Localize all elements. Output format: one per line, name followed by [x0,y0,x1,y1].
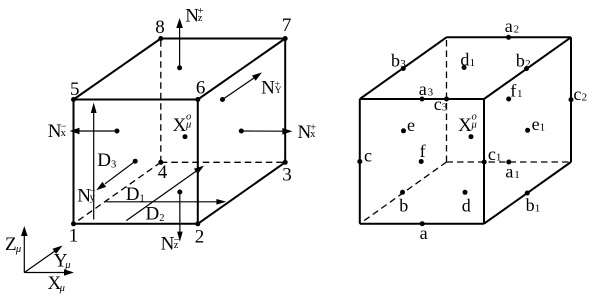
svg-text:7: 7 [282,15,292,36]
svg-text:μ: μ [15,244,21,255]
wire hidden edge 4'-3' [447,161,572,163]
wire hidden edge 4'-1' [360,162,447,224]
svg-text:x: x [310,129,316,140]
svg-text:μ: μ [64,260,70,271]
node c1 [482,144,502,164]
node X_mu^o center of right cube [458,111,477,139]
arrow N_Z plus (top face normal) [176,6,204,71]
arrow N_Y minus (front face normal) [77,159,138,207]
svg-text:b: b [516,51,525,71]
node b1 [525,191,541,216]
node c3 [434,94,449,114]
wire hidden edge 4-8 [160,39,162,163]
node 5 [70,79,80,102]
node b3 [391,51,406,72]
svg-text:b: b [399,196,408,216]
svg-text:D: D [146,204,160,225]
wire edge 1-5 [73,100,75,224]
node d [462,190,471,216]
svg-text:b: b [391,51,400,71]
wire edge 6'-7' [484,37,571,99]
wire edge 1-2 [74,223,198,225]
wire edge 5-8 [74,39,161,100]
svg-text:Y: Y [275,86,282,96]
node c2 [569,84,588,104]
node f1 [506,81,522,102]
wire edge 2'-3' [484,162,571,224]
svg-text:1: 1 [517,88,523,100]
svg-text:f: f [510,81,516,101]
node a2 [505,16,519,40]
arrow N_X plus (right face normal) [239,122,316,143]
wire edge 8'-7' [447,36,572,38]
svg-text:3: 3 [111,159,116,170]
svg-text:c: c [434,94,442,114]
wire edge 2-3 [198,162,285,224]
arrow N_Z minus (bottom face normal) [161,190,183,255]
svg-text:1: 1 [540,122,546,134]
node e [401,115,415,135]
svg-text:2: 2 [582,91,588,103]
node d1 [460,50,475,70]
svg-text:1: 1 [535,203,541,215]
svg-text:6: 6 [196,78,206,99]
svg-text:D: D [126,184,140,205]
svg-text:5: 5 [70,79,80,100]
svg-text:d: d [462,196,471,216]
node 2 [195,221,205,247]
wire hidden edge 4-1 [74,162,161,224]
svg-text:μ: μ [471,120,477,131]
axis Y [24,251,55,273]
svg-text:μ: μ [59,283,65,294]
svg-text:f: f [420,141,426,161]
node a1 [505,160,519,182]
svg-text:a: a [505,162,513,182]
svg-text:b: b [526,195,535,215]
svg-text:X: X [458,115,472,136]
node b2 [516,51,531,71]
svg-text:1: 1 [496,152,502,164]
wire edge 3-7 [284,39,286,163]
node 3 [282,160,292,186]
svg-text:z: z [174,240,179,251]
wire edge 8-7 [161,38,285,40]
node 7 [282,15,292,41]
wire edge 2'-6' [483,99,485,224]
node 6 [195,78,205,102]
wire edge 1'-5' [359,99,361,224]
svg-text:3: 3 [442,102,448,114]
arrow D3 (z direction) [91,103,116,220]
svg-text:d: d [460,50,469,70]
svg-text:3: 3 [428,87,434,99]
node c [357,146,372,166]
svg-text:2: 2 [159,213,164,224]
wire edge 1'-2' [360,223,484,225]
node 1 [69,221,79,246]
svg-text:N: N [161,233,175,254]
svg-text:1: 1 [69,226,79,247]
svg-text:4: 4 [158,162,168,183]
node a [420,221,428,243]
svg-text:D: D [97,150,111,171]
svg-text:e: e [532,114,540,134]
coordinate axes [5,226,74,294]
arrow N_Y plus (back face normal) [220,72,282,102]
arrow D2 (y direction) [126,166,204,225]
svg-text:3: 3 [400,58,406,70]
svg-text:2: 2 [195,227,205,248]
wire edge 2-6 [197,100,199,224]
svg-text:y: y [90,193,96,204]
node a3 [419,79,434,102]
node 4 [158,160,168,183]
svg-text:c: c [364,146,372,166]
axis X [24,272,65,274]
wire edge 3'-7' [570,37,572,162]
wire hidden edge 4-3 [161,161,285,163]
svg-text:N: N [261,78,275,99]
wire edge 6-7 [198,39,285,100]
node f [419,141,426,164]
arrow D1 (x direction) [106,184,226,205]
axis Z [23,235,25,273]
svg-text:x: x [61,128,67,139]
svg-text:a: a [505,16,513,36]
svg-text:2: 2 [514,24,520,36]
svg-text:3: 3 [282,165,292,186]
svg-text:a: a [420,223,428,243]
arrow N_X minus (left face normal) [48,121,120,142]
svg-text:1: 1 [470,57,476,69]
svg-text:1: 1 [140,194,145,205]
node e1 [525,114,545,134]
svg-text:c: c [573,84,581,104]
svg-text:2: 2 [525,58,531,70]
svg-text:8: 8 [155,17,165,38]
wire edge 5-6 [74,99,198,101]
svg-text:a: a [419,79,427,99]
svg-text:μ: μ [185,120,191,131]
wire edge 5'-8' [360,37,447,99]
svg-text:1: 1 [514,169,520,181]
svg-text:z: z [198,13,203,24]
node X_mu^o center of left cube [173,111,192,139]
wire hidden edge 4'-8' [446,37,448,162]
svg-text:Z: Z [5,234,17,255]
wire edge 5'-6' [360,98,484,100]
svg-text:e: e [407,115,415,135]
node b [399,190,408,216]
svg-text:X: X [173,115,187,136]
svg-text:c: c [488,144,496,164]
node 8 [155,17,165,41]
